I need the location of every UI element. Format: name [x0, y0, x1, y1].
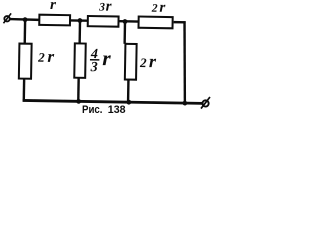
- svg-text:Рис.: Рис.: [82, 104, 103, 116]
- svg-text:138: 138: [108, 104, 126, 116]
- svg-text:2r: 2r: [37, 47, 57, 66]
- svg-text:r: r: [50, 0, 56, 13]
- svg-text:3r: 3r: [98, 0, 112, 15]
- svg-text:r: r: [102, 46, 112, 70]
- svg-text:3: 3: [90, 60, 98, 75]
- svg-text:2r: 2r: [151, 0, 167, 16]
